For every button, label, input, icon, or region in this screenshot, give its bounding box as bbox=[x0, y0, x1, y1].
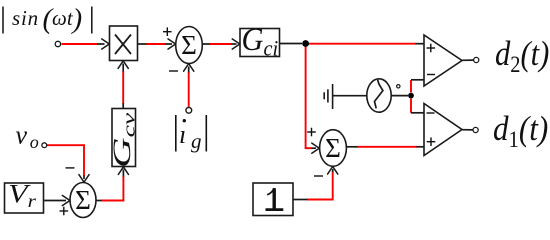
svg-text:ωt: ωt bbox=[52, 6, 74, 30]
svg-text:d2(t): d2(t) bbox=[495, 35, 549, 77]
svg-text:Σ: Σ bbox=[181, 30, 197, 60]
svg-text:Σ: Σ bbox=[325, 133, 341, 163]
svg-text:): ) bbox=[71, 3, 83, 35]
svg-text:ı: ı bbox=[179, 120, 186, 149]
svg-text:d1(t): d1(t) bbox=[493, 110, 548, 152]
svg-text:g: g bbox=[191, 129, 202, 153]
svg-text:Σ: Σ bbox=[75, 185, 91, 215]
svg-text:v: v bbox=[16, 121, 28, 150]
svg-text:o: o bbox=[30, 132, 39, 152]
svg-text:sin: sin bbox=[12, 6, 39, 30]
